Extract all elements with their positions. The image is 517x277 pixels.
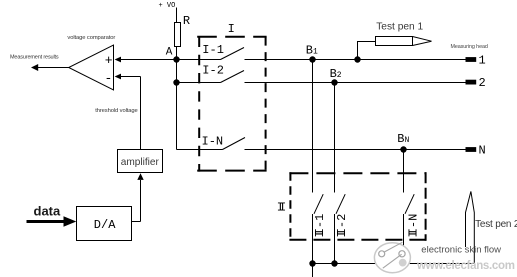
- svg-text:D/A: D/A: [94, 218, 116, 232]
- svg-text:-: -: [105, 71, 113, 86]
- svg-text:Test pen 1: Test pen 1: [376, 22, 423, 33]
- svg-text:Test pen 2: Test pen 2: [475, 219, 517, 230]
- svg-text:II-1: II-1: [313, 214, 327, 238]
- svg-text:data: data: [34, 203, 62, 218]
- svg-text:II: II: [277, 200, 286, 214]
- svg-text:II-N: II-N: [406, 214, 420, 238]
- svg-text:threshold voltage: threshold voltage: [95, 108, 137, 114]
- svg-text:electronic skin flow: electronic skin flow: [421, 244, 501, 255]
- svg-text:voltage comparator: voltage comparator: [67, 35, 115, 41]
- svg-text:Measurement results: Measurement results: [10, 54, 59, 60]
- svg-text:I-2: I-2: [202, 64, 224, 78]
- svg-text:N: N: [479, 144, 486, 158]
- svg-text:I: I: [228, 22, 235, 36]
- svg-text:amplifier: amplifier: [121, 157, 160, 168]
- svg-text:Measuring head: Measuring head: [451, 44, 488, 50]
- svg-text:2: 2: [479, 76, 486, 90]
- svg-text:R: R: [183, 14, 190, 28]
- svg-text:+: +: [105, 53, 113, 68]
- svg-text:A: A: [166, 47, 173, 59]
- svg-text:www.elecfans.com: www.elecfans.com: [416, 260, 515, 272]
- svg-text:1: 1: [479, 53, 486, 67]
- svg-text:I-N: I-N: [202, 134, 224, 148]
- svg-text:I-1: I-1: [202, 43, 224, 57]
- svg-text:II-2: II-2: [335, 214, 349, 238]
- svg-text:+ VO: + VO: [159, 2, 176, 10]
